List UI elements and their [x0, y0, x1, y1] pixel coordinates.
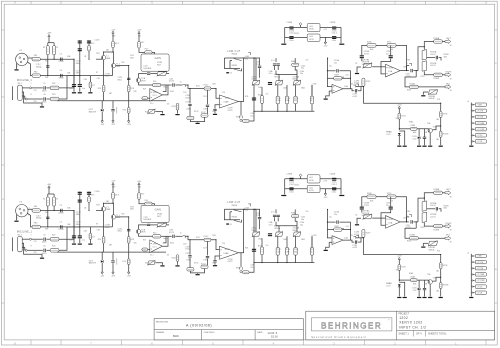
svg-text:OF 4: OF 4: [416, 332, 422, 335]
svg-text:SHEETS TOTAL: SHEETS TOTAL: [428, 332, 447, 335]
svg-text:A (09/02/06): A (09/02/06): [186, 323, 212, 327]
svg-text:SHEET 1: SHEET 1: [398, 332, 409, 335]
svg-text:14.02. 6: 14.02. 6: [268, 331, 278, 335]
svg-text:Specialized Studio Equipment: Specialized Studio Equipment: [311, 335, 366, 339]
svg-text:1202: 1202: [399, 316, 408, 320]
svg-text:15:16: 15:16: [271, 335, 278, 339]
svg-text:DATE: DATE: [257, 331, 263, 334]
svg-text:CHECKED: CHECKED: [204, 332, 215, 334]
svg-text:XENYX 1202: XENYX 1202: [399, 321, 422, 325]
svg-text:BEHRINGER: BEHRINGER: [321, 322, 382, 331]
svg-text:BHK: BHK: [173, 334, 179, 338]
svg-text:DRAWN: DRAWN: [156, 331, 165, 334]
svg-text:INPUT CH. 1/2: INPUT CH. 1/2: [399, 325, 426, 329]
svg-text:REVISIONS: REVISIONS: [156, 322, 168, 324]
